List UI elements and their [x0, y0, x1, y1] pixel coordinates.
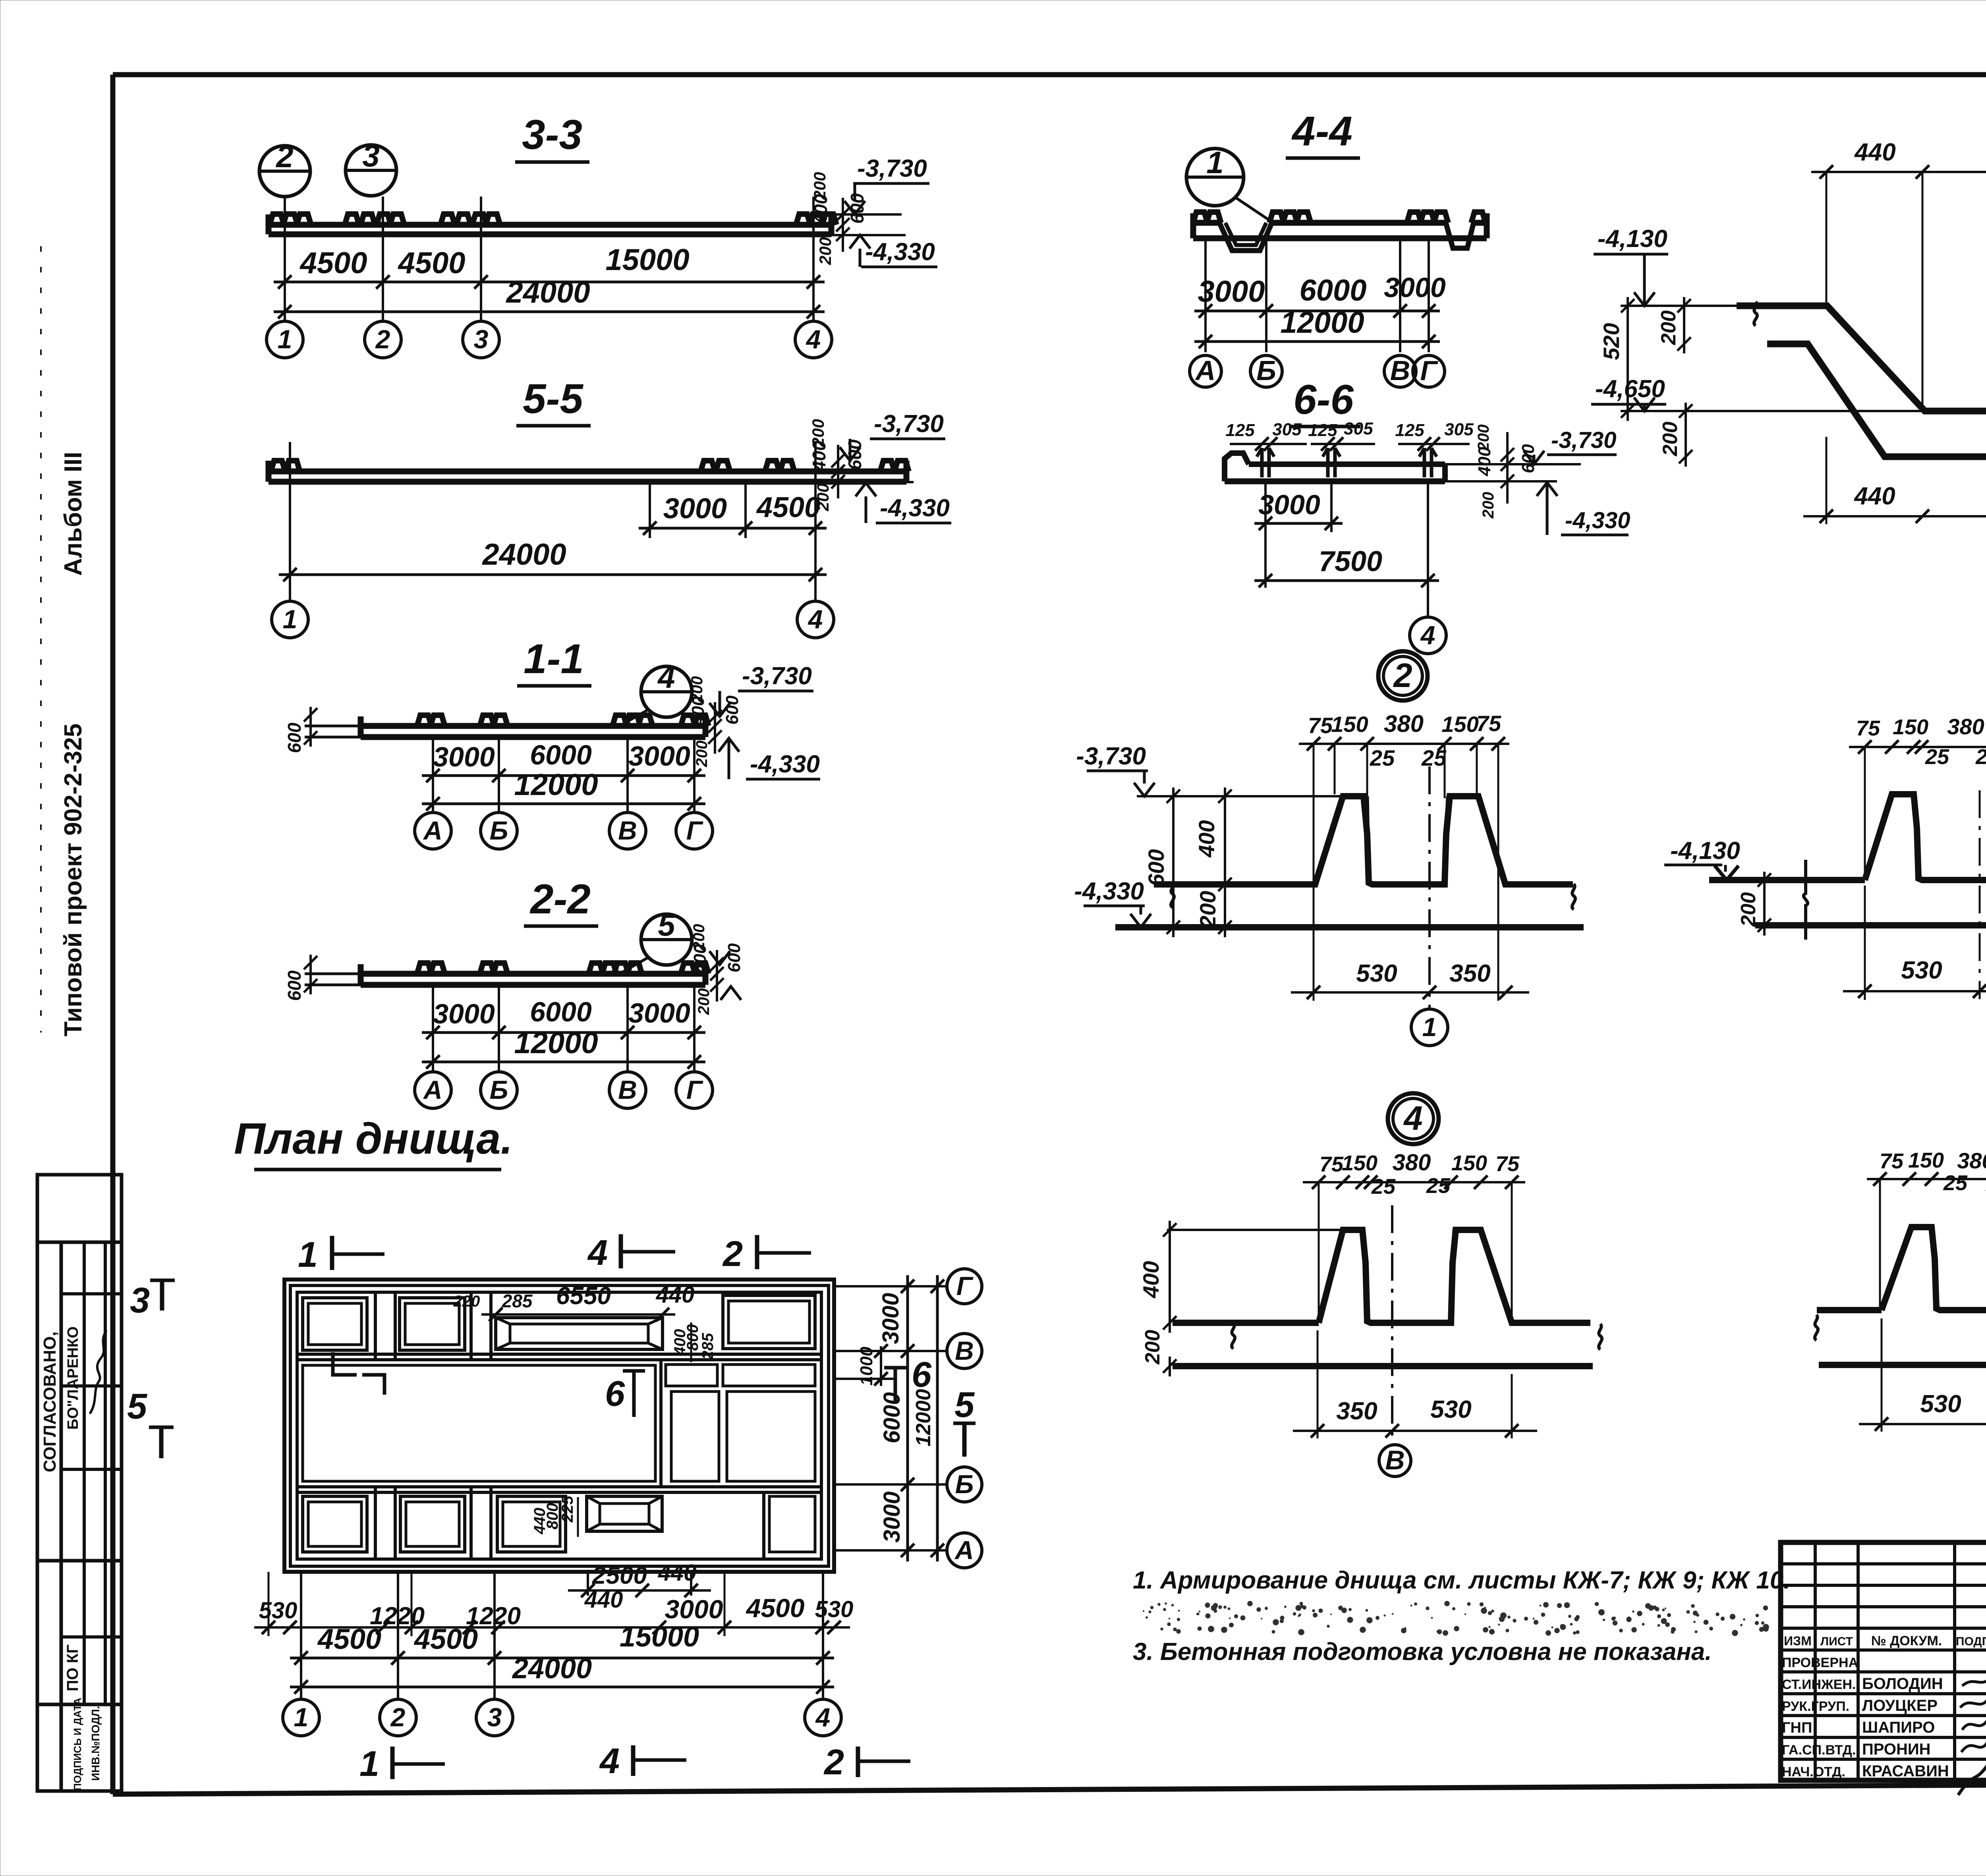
svg-text:4: 4	[657, 660, 675, 695]
detail 1 profile top surface with pit and ribs	[1737, 212, 1986, 411]
note line 2 smudged	[1143, 1601, 1769, 1636]
plan cut mark 1 bottom	[359, 1744, 445, 1784]
section 1-1 slab profile	[305, 715, 709, 737]
title block row ГЛ.СП.ОТД. ПРОНИН	[1782, 1735, 1986, 1758]
section 2-2 grid circle А	[415, 1072, 451, 1108]
svg-text:1: 1	[1206, 145, 1223, 180]
section 5-5 dim line 3000 4500	[639, 492, 827, 535]
left sidebar table (approval column)	[37, 1175, 122, 1791]
section 4-4 grid circle Б	[1250, 355, 1282, 387]
section 1-1 grid circle А	[415, 813, 451, 849]
svg-text:Б: Б	[1256, 355, 1276, 386]
svg-text:БО"ЛАРЕНКО: БО"ЛАРЕНКО	[65, 1326, 81, 1430]
svg-text:600: 600	[284, 970, 305, 1001]
svg-text:1-1: 1-1	[524, 636, 584, 682]
section 2-2 dim line 12000	[422, 1026, 705, 1069]
svg-text:4-4: 4-4	[1291, 108, 1352, 154]
detail callout circle 4 on section 1-1	[620, 660, 692, 726]
detail 1 elevation -4,650	[1591, 375, 1925, 411]
section 2-2 left dim 600	[284, 955, 317, 1001]
plan bottom band cell 3	[497, 1496, 566, 1552]
svg-text:ПОДПИСЬ И ДАТА: ПОДПИСЬ И ДАТА	[71, 1698, 83, 1791]
detail 1 break marks	[1754, 302, 1986, 330]
svg-text:12000: 12000	[514, 768, 598, 802]
svg-text:Б: Б	[490, 1075, 508, 1104]
plan top band cell 3	[723, 1295, 815, 1349]
section 1-1 dim line 3000 6000 3000	[422, 739, 705, 782]
svg-text:А: А	[423, 816, 442, 845]
svg-text:6000: 6000	[879, 1392, 905, 1443]
svg-text:305: 305	[1344, 419, 1373, 438]
svg-text:600: 600	[1144, 849, 1169, 886]
svg-text:2: 2	[390, 1702, 406, 1732]
svg-text:В: В	[618, 1075, 637, 1104]
section 5-5 title	[516, 376, 591, 426]
plan cut mark 3 left	[130, 1280, 175, 1320]
detail 1 left dims 200 200	[1657, 297, 1692, 467]
svg-text:305: 305	[1272, 420, 1302, 439]
svg-text:СОГЛАСОВАНО,: СОГЛАСОВАНО,	[40, 1332, 60, 1473]
svg-text:6: 6	[605, 1374, 625, 1414]
svg-text:3. Бетонная подготовка условна: 3. Бетонная подготовка условна не показа…	[1133, 1638, 1712, 1666]
section 3-3 dim line 4500 4500 15000	[274, 243, 825, 289]
svg-text:200: 200	[693, 741, 711, 768]
svg-text:25: 25	[1370, 745, 1395, 770]
svg-text:1000: 1000	[857, 1347, 876, 1386]
svg-text:150: 150	[1342, 1151, 1377, 1175]
section 6-6 dim 3000	[1254, 481, 1343, 588]
title block outer frame	[1781, 1542, 1986, 1780]
svg-text:125: 125	[1225, 421, 1255, 440]
svg-text:3000: 3000	[433, 998, 495, 1029]
plan grid circle Г right	[947, 1269, 982, 1304]
detail 1 bottom dim line 440 1040 130 440 350	[1803, 349, 1986, 524]
detail 5 bottom dim line 530 1000 530	[1859, 1318, 1986, 1432]
section 1-1 elevation -3,730	[709, 662, 813, 716]
detail 2 bottom dim line 530 350	[1291, 960, 1529, 999]
plan section mark 5 right	[953, 1385, 976, 1457]
section 5-5 grid circle 1	[272, 601, 308, 638]
plan top band beam with chamfered ends	[496, 1318, 663, 1349]
plan wall slot at grid 3	[471, 1292, 491, 1559]
section 2-2 grid circle В	[609, 1072, 646, 1108]
svg-text:75: 75	[1495, 1152, 1520, 1176]
svg-text:24000: 24000	[505, 276, 590, 309]
section 6-6 elevation -3,730	[1445, 427, 1617, 464]
svg-text:15000: 15000	[620, 1621, 699, 1653]
plan grid circle 1	[283, 1699, 319, 1736]
plan cut mark 2 bottom	[823, 1743, 910, 1782]
svg-text:4500: 4500	[299, 246, 367, 280]
svg-text:440: 440	[1854, 139, 1895, 166]
section 1-1 small vertical dims	[688, 676, 742, 768]
svg-text:1: 1	[283, 604, 298, 634]
svg-text:200: 200	[688, 676, 706, 703]
svg-text:150: 150	[1451, 1151, 1487, 1175]
section 4-4 grid circle Г	[1413, 355, 1445, 387]
svg-text:4: 4	[815, 1702, 831, 1732]
svg-text:440: 440	[658, 1560, 697, 1586]
plan grid verticals to circles	[301, 1572, 823, 1699]
svg-text:1. Армирование днища см. листы: 1. Армирование днища см. листы КЖ-7; КЖ …	[1133, 1567, 1791, 1594]
svg-text:75: 75	[1319, 1152, 1344, 1176]
svg-text:200: 200	[1475, 425, 1492, 452]
svg-text:6000: 6000	[530, 739, 592, 770]
svg-text:75: 75	[1856, 716, 1880, 740]
section 3-3 title	[515, 112, 589, 162]
section 5-5 small vertical dims 200 400 600	[809, 419, 865, 511]
svg-text:6-6: 6-6	[1293, 376, 1354, 423]
section 4-4 grid circle А	[1190, 355, 1221, 387]
section 3-3 grid circle 3	[463, 321, 499, 358]
section 6-6 top dims 125 305	[1225, 419, 1474, 451]
svg-text:25: 25	[1426, 1174, 1451, 1198]
detail 2 elevation -3,730	[1076, 743, 1155, 796]
svg-text:380: 380	[1947, 714, 1984, 739]
svg-text:ЛОУЦКЕР: ЛОУЦКЕР	[1862, 1697, 1938, 1714]
sidebar signature	[90, 1330, 106, 1414]
svg-text:-3,730: -3,730	[1076, 743, 1146, 770]
plan cut mark 1 top	[298, 1235, 384, 1275]
detail 1 profile bottom surface	[1767, 344, 1986, 457]
svg-text:400: 400	[1194, 820, 1219, 857]
detail 4 left dims 400 200	[1138, 1221, 1177, 1376]
svg-text:6: 6	[912, 1355, 932, 1395]
section 5-5 grid circle 4	[797, 601, 834, 638]
plan middle band right cells	[661, 1360, 815, 1487]
svg-text:-3,730: -3,730	[857, 155, 927, 182]
detail 2 break marks	[1171, 882, 1575, 909]
section 1-1 left dim 600	[284, 707, 317, 753]
plan grid circle А right	[947, 1533, 982, 1568]
section 5-5 slab profile	[269, 461, 909, 482]
svg-text:А: А	[423, 1075, 442, 1104]
svg-text:ШАПИРО: ШАПИРО	[1862, 1719, 1935, 1736]
detail 3 profile four ribs	[1709, 794, 1986, 925]
section 4-4 grid circle В	[1384, 355, 1416, 387]
svg-text:1: 1	[278, 324, 292, 354]
detail 5 top dim line 75 150 380 750 380 150 75	[1867, 1145, 1986, 1310]
section 3-3 grid circle 2	[365, 321, 401, 358]
svg-text:200: 200	[1657, 311, 1680, 345]
section 1-1 grid circle В	[609, 813, 646, 849]
svg-text:3000: 3000	[1258, 489, 1320, 520]
svg-text:ГА.СП.ВТД.: ГА.СП.ВТД.	[1782, 1743, 1856, 1758]
svg-text:200: 200	[1480, 492, 1497, 519]
detail 2 center line and grid circle 1	[1411, 766, 1448, 1046]
section 6-6 elevation -4,330	[1445, 481, 1630, 535]
section 3-3 grid circle 4	[795, 321, 832, 358]
svg-text:3: 3	[130, 1281, 150, 1320]
svg-text:В: В	[618, 816, 637, 845]
svg-text:2: 2	[722, 1234, 743, 1274]
svg-text:12000: 12000	[1280, 306, 1364, 340]
svg-text:25: 25	[1943, 1171, 1968, 1195]
plan top band cell 1	[303, 1298, 367, 1350]
svg-text:3000: 3000	[1384, 272, 1446, 303]
svg-text:1: 1	[298, 1235, 318, 1275]
svg-text:75: 75	[1308, 713, 1333, 738]
svg-text:4: 4	[1403, 1100, 1422, 1137]
svg-text:ГНП: ГНП	[1782, 1720, 1812, 1736]
plan grid circle В right	[947, 1334, 982, 1368]
plan cut mark 5 left	[127, 1387, 174, 1458]
svg-text:530: 530	[1901, 957, 1942, 984]
svg-text:600: 600	[284, 722, 305, 753]
section 1-1 elevation -4,330	[719, 738, 820, 779]
svg-text:25: 25	[1371, 1175, 1396, 1199]
svg-text:125: 125	[1308, 421, 1337, 440]
svg-text:3-3: 3-3	[522, 112, 582, 158]
svg-text:Б: Б	[490, 816, 508, 845]
plan row line В double	[297, 1354, 821, 1360]
svg-text:400: 400	[1138, 1261, 1163, 1298]
svg-text:-4,330: -4,330	[1074, 878, 1144, 905]
detail 2 top dim line 75 150 380 150 75	[1299, 710, 1509, 1001]
svg-text:Альбом III: Альбом III	[60, 452, 87, 576]
svg-text:200: 200	[810, 172, 829, 200]
svg-text:200: 200	[813, 483, 832, 511]
fold mark dashed line left margin	[40, 246, 42, 1033]
section 5-5 elevation -3,730	[840, 410, 945, 461]
svg-text:5: 5	[127, 1387, 148, 1426]
svg-text:2: 2	[823, 1743, 844, 1782]
section 2-2 dim line 3000 6000 3000	[422, 996, 705, 1039]
detail 2 callout double circle	[1378, 651, 1428, 701]
detail 3 break marks	[1804, 860, 1986, 940]
section 4-4 slab profile with channels	[1193, 212, 1487, 251]
svg-text:-4,330: -4,330	[865, 238, 935, 266]
detail 3 elevation -4,130	[1664, 837, 1740, 880]
section 2-2 grid circle Б	[481, 1072, 517, 1108]
svg-text:225: 225	[559, 1496, 576, 1523]
svg-text:1: 1	[1422, 1012, 1437, 1042]
svg-text:3000: 3000	[433, 741, 495, 772]
section 3-3 grid line verticals	[285, 197, 813, 321]
svg-text:285: 285	[502, 1291, 533, 1311]
detail 1 top dim line 440 800 235 150 380 150 75	[1811, 138, 1986, 411]
plan bottom band right cell	[764, 1492, 815, 1559]
detail 4 break marks	[1232, 1323, 1602, 1349]
svg-text:530: 530	[815, 1596, 854, 1622]
svg-text:Г: Г	[1420, 355, 1439, 386]
svg-text:3000: 3000	[1198, 275, 1265, 309]
section 1-1 grid circle Г	[676, 813, 713, 849]
svg-text:12000: 12000	[912, 1389, 935, 1447]
svg-text:Г: Г	[686, 816, 703, 845]
svg-text:220: 220	[453, 1293, 480, 1310]
svg-text:1: 1	[294, 1702, 309, 1732]
plan bottom band cell 2	[400, 1496, 465, 1552]
svg-text:600: 600	[1518, 444, 1538, 473]
svg-text:3000: 3000	[663, 493, 727, 525]
svg-text:350: 350	[1336, 1397, 1377, 1425]
svg-text:СТ.ИНЖЕН.: СТ.ИНЖЕН.	[1782, 1677, 1856, 1692]
svg-text:Б: Б	[955, 1469, 974, 1499]
svg-text:ЛИСТ: ЛИСТ	[1820, 1635, 1853, 1648]
title block header row Изм Лист № докум Подпись Дата	[1784, 1633, 1986, 1648]
svg-text:А: А	[954, 1535, 974, 1565]
svg-text:4: 4	[806, 324, 821, 354]
plan bottom band cell 1	[303, 1496, 367, 1552]
svg-text:6000: 6000	[1299, 274, 1366, 307]
svg-text:ПО КГ: ПО КГ	[64, 1644, 81, 1691]
svg-text:1: 1	[359, 1744, 379, 1784]
svg-text:7500: 7500	[1319, 546, 1382, 577]
detail 2 elevation -4,330	[1074, 878, 1151, 927]
svg-text:15000: 15000	[605, 243, 689, 277]
section 3-3 dim line 24000	[274, 276, 825, 318]
svg-text:В: В	[1390, 355, 1410, 386]
section 4-4 dim line 3000 6000 3000	[1194, 272, 1446, 318]
section 4-4 dim line 12000	[1194, 306, 1440, 348]
svg-text:БОЛОДИН: БОЛОДИН	[1862, 1675, 1943, 1693]
section 6-6 grid circle 4	[1410, 481, 1446, 654]
svg-text:2: 2	[275, 139, 293, 174]
svg-text:520: 520	[1599, 323, 1624, 360]
detail 3 left dim 200	[1737, 872, 1771, 936]
plan sump rotated dims 440 800 225	[531, 1496, 578, 1537]
svg-text:600: 600	[723, 695, 742, 725]
svg-text:-4,330: -4,330	[880, 494, 950, 522]
svg-text:25: 25	[1925, 745, 1949, 769]
svg-text:-4,130: -4,130	[1598, 225, 1667, 253]
svg-text:ИНВ.№ПОДЛ.: ИНВ.№ПОДЛ.	[89, 1706, 102, 1781]
plan grid circle 2	[380, 1699, 416, 1736]
plan dim line 4500 4500 15000	[290, 1621, 834, 1665]
svg-text:-3,730: -3,730	[1551, 427, 1616, 453]
svg-text:4500: 4500	[413, 1623, 478, 1655]
title block row ГНП ШАПИРО	[1782, 1716, 1986, 1736]
svg-text:305: 305	[1444, 420, 1474, 439]
svg-text:-3,730: -3,730	[742, 662, 812, 690]
plan sump dims 2500 440 440	[568, 1560, 711, 1613]
svg-text:4: 4	[599, 1741, 620, 1781]
svg-text:380: 380	[1957, 1148, 1986, 1173]
section 6-6 title	[1289, 376, 1360, 427]
svg-text:24000: 24000	[512, 1653, 592, 1685]
svg-text:-4,330: -4,330	[750, 751, 820, 778]
section 3-3 small vertical dims 400 600 200	[810, 172, 867, 265]
section 2-2 grid circle Г	[676, 1072, 713, 1108]
svg-text:В: В	[1385, 1445, 1404, 1475]
svg-text:2500: 2500	[592, 1562, 647, 1589]
svg-text:В: В	[955, 1336, 974, 1365]
detail 2 left dims 600 400 200	[1144, 787, 1315, 937]
svg-text:200: 200	[809, 419, 827, 447]
svg-text:150: 150	[1908, 1148, 1944, 1172]
section 1-1 grid circle Б	[481, 813, 517, 849]
svg-text:3: 3	[362, 138, 379, 173]
detail 2 profile	[1115, 796, 1584, 927]
plan section mark 6 right	[884, 1355, 932, 1404]
svg-text:План днища.: План днища.	[234, 1114, 513, 1163]
detail 1 left dim 520	[1599, 297, 1634, 421]
svg-text:НАЧ.ОТД.: НАЧ.ОТД.	[1782, 1764, 1845, 1779]
svg-text:440: 440	[656, 1282, 695, 1308]
plan dim line 24000	[290, 1653, 834, 1694]
title block row РУК.ГРУП. ЛОУЦКЕР	[1782, 1694, 1986, 1714]
plan section mark 6 inside	[605, 1371, 645, 1417]
svg-text:Типовой проект 902-2-325: Типовой проект 902-2-325	[60, 724, 87, 1036]
detail 4 profile two ribs	[1167, 1230, 1593, 1366]
svg-text:200: 200	[695, 988, 713, 1015]
svg-text:КРАСАВИН: КРАСАВИН	[1862, 1762, 1949, 1780]
svg-text:4500: 4500	[397, 246, 465, 280]
svg-text:25: 25	[1975, 745, 1986, 769]
svg-text:380: 380	[1384, 710, 1424, 737]
svg-text:2: 2	[375, 324, 390, 354]
plan title План днища	[234, 1114, 513, 1170]
svg-text:ИЗМ: ИЗМ	[1784, 1634, 1812, 1648]
title block row СТ.ИНЖЕН. БОЛОДИН	[1782, 1675, 1986, 1693]
svg-text:3000: 3000	[628, 998, 690, 1029]
svg-text:3000: 3000	[878, 1293, 904, 1344]
svg-text:3000: 3000	[879, 1491, 905, 1542]
section 4-4 grid verticals	[1206, 238, 1429, 352]
svg-text:2-2: 2-2	[529, 876, 591, 923]
plan right dim chain 3000 6000 3000	[878, 1275, 914, 1561]
svg-text:4500: 4500	[317, 1623, 381, 1655]
svg-text:200: 200	[1141, 1330, 1164, 1365]
detail 4 bottom dim line 350 530	[1293, 1330, 1537, 1438]
svg-text:12000: 12000	[514, 1026, 598, 1060]
svg-text:3000: 3000	[628, 741, 690, 772]
svg-text:150: 150	[1893, 715, 1928, 739]
svg-text:200: 200	[816, 237, 835, 265]
svg-text:4: 4	[587, 1233, 608, 1273]
svg-text:75: 75	[1476, 711, 1501, 736]
section 2-2 small vertical dims	[690, 924, 744, 1015]
svg-text:5: 5	[954, 1385, 975, 1425]
section 6-6 dim 7500	[1254, 546, 1439, 587]
svg-text:А: А	[1195, 355, 1216, 386]
svg-text:-4,130: -4,130	[1670, 837, 1740, 865]
section 1-1 grid verticals	[433, 738, 694, 812]
title block row НАЧ.ОТД. КРАСАВИН	[1782, 1749, 1986, 1795]
plan right dim chain 12000	[912, 1275, 944, 1561]
svg-text:-3,730: -3,730	[874, 410, 944, 438]
plan beam small rotated dims 400 800 285	[671, 1322, 717, 1362]
plan bottom dim line 530 1220 1220 3000 4500 530	[254, 1572, 853, 1636]
section 2-2 title	[524, 876, 598, 926]
plan top band cell 2	[400, 1298, 465, 1350]
detail callout circle 3 on section 3-3	[346, 138, 396, 196]
svg-text:150: 150	[1331, 712, 1368, 737]
detail callout circle 1 on section 4-4	[1186, 145, 1270, 221]
svg-text:№ ДОКУМ.: № ДОКУМ.	[1871, 1633, 1942, 1648]
plan grid circle 4	[805, 1699, 841, 1736]
plan beam dim line 285 6550 440	[453, 1282, 695, 1321]
plan wall slot at grid 2	[375, 1292, 395, 1559]
svg-text:ПРОВЕРНА: ПРОВЕРНА	[1782, 1655, 1858, 1670]
detail 4 top dim line 75 150 380 150 75	[1303, 1150, 1525, 1323]
detail callout circle 5 on section 2-2	[620, 907, 692, 974]
svg-text:4500: 4500	[756, 492, 820, 523]
plan middle big cell inner outline	[303, 1365, 655, 1481]
section 5-5 grid line verticals	[290, 442, 815, 601]
section 1-1 dim line 12000	[422, 768, 705, 811]
section 3-3 elevation -3,730	[831, 155, 929, 214]
svg-text:4: 4	[808, 604, 823, 634]
section 4-4 title	[1286, 108, 1360, 158]
svg-text:200: 200	[1195, 891, 1220, 928]
plan outer wall triple outline	[284, 1280, 834, 1572]
svg-text:24000: 24000	[481, 538, 566, 571]
svg-text:ПРОНИН: ПРОНИН	[1862, 1741, 1931, 1758]
svg-text:600: 600	[724, 943, 744, 973]
svg-text:5-5: 5-5	[523, 376, 583, 422]
